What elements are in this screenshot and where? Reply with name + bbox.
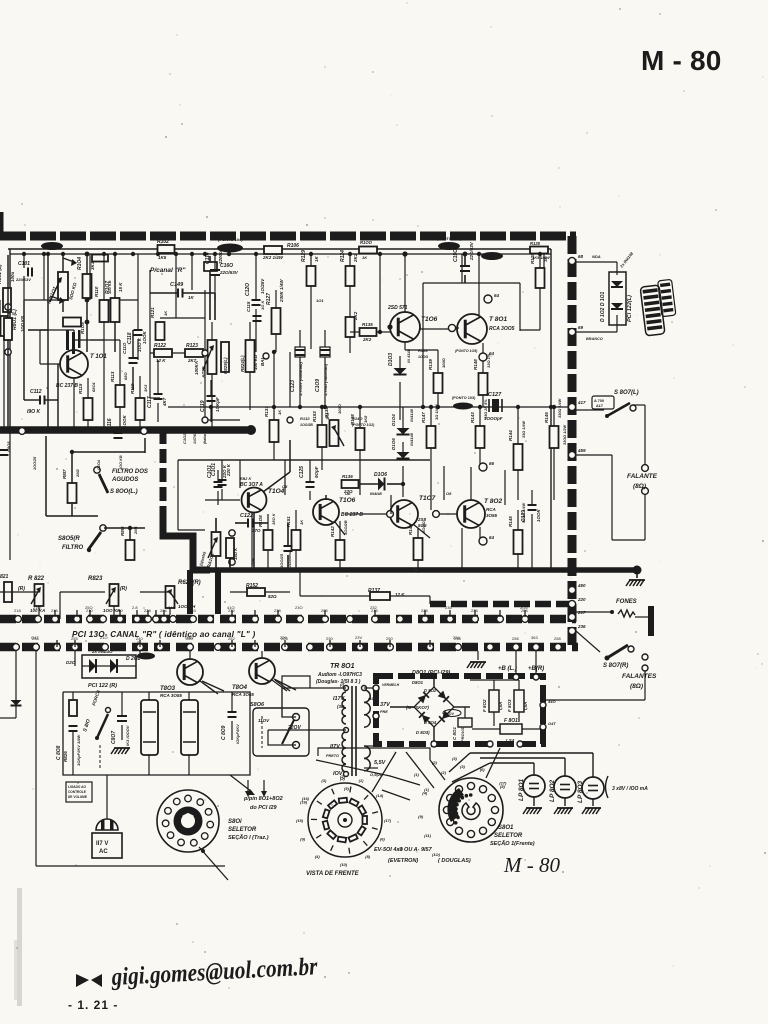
transistor T803 [160,651,215,698]
svg-text:(3Ω: (3Ω [337,704,345,709]
svg-text:P/canal "R": P/canal "R" [150,267,186,274]
wire right supply bus vertical [568,236,577,650]
svg-text:1OO/25: 1OO/25 [279,553,284,568]
svg-text:R110: R110 [94,286,99,297]
svg-text:1K: 1K [314,255,319,262]
wire bottom extra [136,190,330,694]
svg-text:IN4148: IN4148 [409,408,414,422]
resistor R100 [359,240,377,260]
switch PORCA S810 [82,689,110,770]
svg-text:1K: 1K [188,295,195,300]
svg-text:2S8: 2S8 [417,517,427,522]
svg-text:D 1O2 D 1O1: D 1O2 D 1O1 [600,291,606,322]
capacitor C117 [147,360,167,422]
svg-text:(9): (9) [300,837,306,842]
svg-text:2x IN4I4O: 2x IN4I4O [91,649,113,654]
resistor R817 [62,468,80,503]
svg-text:229: 229 [280,635,287,640]
svg-text:CONTROLE: CONTROLE [68,790,86,794]
capacitor C104 [279,523,293,570]
svg-text:R1O4: R1O4 [77,257,83,270]
svg-text:T 1O1: T 1O1 [90,354,107,360]
wire rotary mesh [316,748,564,800]
svg-text:R127: R127 [266,293,272,305]
svg-text:256: 256 [512,636,519,641]
svg-text:R143: R143 [470,412,475,423]
svg-text:(R): (R) [18,586,25,592]
capacitor C160 [204,256,239,320]
capacitor C150 [453,241,474,283]
svg-text:236: 236 [577,624,586,629]
svg-text:(2): (2) [432,760,438,765]
svg-text:R1O7: R1O7 [105,281,111,294]
svg-text:C12O: C12O [245,283,251,296]
svg-text:(PONTO 1O5): (PONTO 1O5) [455,349,478,353]
rotary vista pin labels [296,774,392,867]
junction dots rail404 [209,405,553,409]
label 2M4 [250,557,255,567]
diode D103 [388,348,411,420]
wire filtro loop [46,436,145,570]
svg-text:41O: 41O [227,605,235,610]
wire right mesh [576,455,645,540]
svg-text:(8): (8) [500,784,506,789]
svg-text:68O: 68O [123,372,128,380]
resistor R150 [258,512,276,570]
svg-text:BC 237 B: BC 237 B [56,383,78,389]
label FALANTES [545,654,657,718]
scan streak left margin [14,888,22,1006]
transistor T107 [390,466,436,528]
transistor T105 [313,495,363,535]
svg-text:O5: O5 [282,484,288,489]
capacitor C112 [24,300,58,430]
transformer TR801 sec2 [364,746,387,777]
svg-text:R136: R136 [342,474,353,479]
label EV-801 [374,847,471,864]
svg-text:FILTRO: FILTRO [62,545,84,551]
svg-text:(2): (2) [340,774,346,779]
headphone jack [576,604,654,636]
wire t802 links [433,511,495,545]
wire bus staircase [163,514,210,570]
svg-text:R137: R137 [368,588,380,594]
label scatter2 [33,455,123,470]
svg-text:C8O7: C8O7 [111,731,117,744]
diode-box PCI 122(R) [66,649,155,689]
svg-text:(EVETRON): (EVETRON) [388,858,418,864]
resistor R107b [105,254,123,352]
wire main +V bus top [0,232,576,241]
wire filter box [63,692,250,775]
svg-text:100Ω: 100Ω [441,357,446,368]
label FONES [616,599,637,605]
resistor R128 [520,253,548,330]
wire falanteL [407,405,648,645]
svg-text:F 8O1: F 8O1 [504,718,518,724]
resistor R113 [110,340,128,430]
resistor R801box [4,255,12,430]
svg-text:21O: 21O [33,605,41,610]
resistor R127 [266,279,284,352]
svg-text:AC: AC [99,849,108,855]
svg-text:(PONTO 1O2): (PONTO 1O2) [352,423,375,427]
resistor R124 [340,250,358,317]
svg-text:I,5A: I,5A [498,702,503,710]
svg-text:5OOΩ: 5OOΩ [421,521,426,533]
svg-text:T 8O2: T 8O2 [484,498,502,505]
wire top-left mesh [40,254,138,364]
plug 117V AC [92,775,122,858]
fuse F801 [472,718,543,743]
svg-text:(R): (R) [120,586,127,592]
svg-text:22O/53V: 22O/53V [469,241,474,261]
svg-text:R823: R823 [88,576,103,582]
svg-text:(11): (11) [424,833,431,838]
wire t107 base [345,511,430,538]
svg-text:2SD 571: 2SD 571 [387,305,408,311]
resistor R148 [473,353,491,407]
svg-text:C149: C149 [170,282,184,288]
label 3x8V [606,776,649,798]
capacitor C120 [245,254,265,352]
svg-text:(14): (14) [376,793,384,798]
label P-canal-R [150,267,186,274]
svg-text:VISTA DE FRENTE: VISTA DE FRENTE [306,871,360,877]
wire bottom rail 692 [150,691,250,693]
svg-text:R139: R139 [428,359,433,370]
svg-text:100 KB: 100 KB [253,354,258,370]
label S801 frente [490,825,535,847]
wire t106 collector [402,251,407,312]
svg-text:(PONTO 103): (PONTO 103) [452,396,476,400]
mark page-left edge [0,212,4,232]
switch S806 [250,702,309,756]
pot R822 [18,570,45,615]
resistor R151 [286,510,304,570]
resistor R122 [154,343,172,363]
svg-text:C16O: C16O [220,263,233,269]
svg-text:R113: R113 [110,371,115,382]
transformer TR801 label [316,663,362,685]
capacitor C127 [452,392,503,421]
label +B(R) [528,651,544,680]
svg-text:Audiom -I.O97HC3: Audiom -I.O97HC3 [317,672,362,678]
wire bus619 drops [55,619,475,651]
svg-text:(8): (8) [365,854,371,859]
label cluster a [182,427,207,444]
svg-text:R144: R144 [508,430,513,441]
svg-text:C1O9: C1O9 [315,379,321,392]
svg-text:R142: R142 [330,526,335,537]
svg-text:(4): (4) [398,846,404,851]
node bus-right 68 [568,254,583,265]
svg-text:SEÇÃO I (Traz.): SEÇÃO I (Traz.) [228,834,269,841]
svg-text:1OO KB: 1OO KB [20,316,25,332]
svg-text:T8O3: T8O3 [160,686,176,692]
wire left bus [0,425,256,435]
label D801 PCI-129 [412,670,450,676]
svg-text:(8Ω): (8Ω) [630,683,643,690]
scan speckles drawing area [18,240,592,877]
svg-text:(10): (10) [340,862,348,867]
svg-text:C 8O1: C 8O1 [452,726,457,740]
svg-text:R115: R115 [78,383,83,394]
svg-text:LIGADO AO: LIGADO AO [68,785,86,789]
svg-text:R148: R148 [473,359,478,370]
label PONTO 102 [41,242,63,250]
svg-text:1O K: 1O K [260,300,265,310]
svg-text:R121: R121 [150,307,155,318]
svg-text:II7V: II7V [330,744,341,750]
svg-text:R8I7: R8I7 [62,469,67,479]
svg-text:M - 80: M - 80 [503,853,560,877]
resistor R818 [120,525,138,570]
svg-text:459: 459 [577,448,586,453]
svg-text:S8Oi: S8Oi [228,819,242,825]
node bus-right 417 [568,400,586,411]
svg-text:230K 1/4W: 230K 1/4W [279,279,284,303]
svg-text:15O K: 15O K [233,547,238,560]
svg-text:1O/25V: 1O/25V [260,278,265,294]
svg-text:F 8O3: F 8O3 [507,699,512,712]
svg-text:236: 236 [445,605,452,610]
svg-text:PCI 122 (R): PCI 122 (R) [88,683,117,689]
capacitor C118 [127,300,147,360]
svg-text:C122: C122 [240,513,253,519]
svg-text:PROVID: PROVID [460,727,465,742]
svg-text:IK3 IOOOV: IK3 IOOOV [125,725,130,746]
resistor R102 [157,239,175,260]
svg-text:M - 80: M - 80 [641,45,722,76]
transistor T104 [240,440,290,572]
svg-text:S 8OO(L.): S 8OO(L.) [110,489,138,495]
connector strip hatched [640,279,676,336]
svg-text:( DOUGLAS): ( DOUGLAS) [438,858,471,864]
arrow marks [76,974,102,987]
svg-text:1OO/25: 1OO/25 [33,456,37,470]
svg-text:22O/53V: 22O/53V [219,270,239,275]
wire bus vertical x163 [160,430,167,518]
svg-text:BRANCO: BRANCO [586,337,603,341]
svg-text:R152: R152 [246,583,258,589]
svg-text:D8O1: D8O1 [412,680,424,685]
power board PCI-129 box [376,676,543,744]
wire lamps feed [448,753,593,782]
svg-text:66: 66 [489,461,495,466]
node pci129 edges [373,685,556,747]
svg-text:64: 64 [489,535,495,540]
svg-text:D1O6: D1O6 [374,472,387,478]
label cluster c [240,477,452,496]
svg-text:(17): (17) [384,818,392,823]
svg-text:(15): (15) [296,818,304,823]
capacitor C121 [205,460,231,500]
svg-text:2O5: 2O5 [520,605,528,610]
svg-text:1OKpF: 1OKpF [215,397,220,412]
svg-text:S 8O7(L): S 8O7(L) [614,390,639,396]
svg-text:100Ω: 100Ω [337,403,342,414]
svg-text:9OpF: 9OpF [314,466,319,478]
svg-text:D 8O4: D 8O4 [424,720,437,725]
svg-text:RCA 3O55: RCA 3O55 [160,693,182,698]
svg-text:I9O K: I9O K [27,409,40,415]
svg-text:R123: R123 [186,343,198,349]
svg-text:PRE: PRE [380,710,388,714]
wire t803 t804 rail [150,684,296,700]
svg-text:1K8: 1K8 [363,415,368,423]
svg-text:25O: 25O [85,605,93,610]
node bus430 [19,428,148,435]
svg-text:1OO/2B: 1OO/2B [343,520,348,535]
svg-text:68: 68 [578,254,584,259]
wire rotary crisscross [338,748,500,792]
lamp LP801 [518,763,545,814]
pot R824R [166,570,201,615]
svg-text:(16): (16) [300,799,308,804]
wire filter bottom [36,651,255,866]
resistor R144 [508,407,526,500]
capacitor C149 [150,282,215,320]
label p-pin [243,780,283,811]
svg-text:33Ω 1/4W: 33Ω 1/4W [522,420,526,438]
capacitor C801 [443,710,472,743]
resistor R143 [470,399,488,467]
svg-text:(6): (6) [380,837,386,842]
svg-text:R 822: R 822 [28,576,45,582]
svg-text:A 700: A 700 [594,399,604,403]
label FALANTE [627,473,658,490]
svg-text:2.8: 2.8 [132,605,138,610]
wire left edge parts [0,300,11,455]
svg-text:p/pin 8O1+8O2: p/pin 8O1+8O2 [243,796,283,802]
svg-text:NDA: NDA [592,254,601,259]
resistor R125 [530,241,551,260]
svg-text:R825(L): R825(L) [223,357,228,374]
svg-text:PRETO: PRETO [326,754,339,758]
pot R823 [60,570,127,615]
svg-text:R102: R102 [157,239,169,245]
svg-text:LP 8O1: LP 8O1 [518,778,525,801]
svg-text:3K3: 3K3 [143,384,148,392]
svg-text:24O: 24O [168,605,176,610]
svg-text:R156: R156 [418,348,428,353]
svg-text:D1O3: D1O3 [388,353,394,366]
wire t801 emitter [479,343,495,373]
svg-text:R147: R147 [421,412,426,423]
label PONTO 101 [437,237,462,250]
svg-text:O8: O8 [446,491,452,496]
svg-text:68O1: 68O1 [91,381,96,392]
svg-text:T 8O1: T 8O1 [489,316,507,323]
svg-text:(PONTO 104): (PONTO 104) [218,237,243,242]
svg-text:R1O5: R1O5 [80,322,85,334]
capacitor C809 [221,692,240,744]
pot R134 [324,403,344,446]
svg-text:R146: R146 [544,412,549,423]
resistor R136 [342,474,359,494]
svg-text:C129: C129 [521,510,527,522]
svg-text:33OΩ 1/2W: 33OΩ 1/2W [563,425,567,445]
svg-text:23O: 23O [295,605,303,610]
wire t803 diag [202,679,296,691]
diode D104 [391,407,414,435]
label S801 traz [228,819,269,841]
svg-text:I,5A: I,5A [523,702,528,710]
svg-text:21O: 21O [100,635,108,640]
svg-text:330Ω 1/4W: 330Ω 1/4W [558,398,562,418]
svg-text:C15O: C15O [453,249,459,262]
svg-text:IOKpF/IKV: IOKpF/IKV [235,724,240,744]
capacitor C125 [299,460,319,500]
svg-text:D1O6: D1O6 [391,438,396,450]
svg-text:(3): (3) [452,756,458,761]
label PCI 130 [72,630,255,639]
node bus-right 69 [568,325,583,336]
node bus-right 450 [568,583,586,594]
svg-text:22OV: 22OV [445,712,455,716]
resistor R801(L) [0,264,15,312]
transistor T106 [387,305,438,342]
svg-text:(PONTO 1O1): (PONTO 1O1) [437,237,462,241]
svg-text:FILTRO DOS: FILTRO DOS [112,469,148,475]
node bus-right 236 [568,624,586,635]
ground pci129 [467,651,486,668]
resistor R106 [262,243,299,260]
svg-text:33Ω 2K 5%: 33Ω 2K 5% [484,399,488,419]
svg-text:FONES: FONES [616,599,637,605]
wire bus drop x218 [215,570,221,614]
pot RA102 [198,518,235,570]
label tiny row 647 [31,635,538,640]
svg-text:1OO K: 1OO K [137,337,142,352]
capacitor C807 [111,692,130,754]
wire mid mesh1 [178,404,430,500]
svg-text:R141: R141 [408,524,413,535]
svg-text:R129: R129 [301,250,307,262]
svg-text:F 8O2: F 8O2 [482,699,487,712]
svg-text:C8O5: C8O5 [6,441,11,452]
svg-text:(4): (4) [422,791,428,796]
svg-text:SELETOR: SELETOR [228,827,257,833]
svg-text:T1O4: T1O4 [268,488,285,495]
capacitor C805 big [141,692,158,775]
svg-text:FALANTES: FALANTES [622,673,657,680]
svg-text:R14O: R14O [352,416,363,421]
svg-text:R153: R153 [312,411,317,422]
label +B(L) [498,651,519,680]
resistor R137 [300,570,430,604]
resistor R115 [78,378,96,430]
svg-text:100KA: 100KA [194,361,199,375]
wire collector col [496,283,498,293]
wire top rail y254 [10,253,551,255]
svg-text:4K7: 4K7 [162,397,167,407]
svg-text:D8O1 (PCI-I29): D8O1 (PCI-I29) [412,670,450,676]
wire pcb border left [9,249,11,428]
svg-text:100u: 100u [10,271,15,282]
wire pci129 inner [454,465,519,718]
svg-text:T8O4: T8O4 [232,685,248,691]
svg-text:LP 8O2: LP 8O2 [549,779,556,802]
svg-text:BC 3O7 A: BC 3O7 A [240,482,263,488]
resistor R145 [508,503,526,573]
capacitor C114 [205,248,223,300]
transformer TR801 primary2 [268,722,350,791]
svg-text:1K5 1/4W: 1K5 1/4W [532,255,551,260]
svg-text:C1O2: C1O2 [182,433,187,444]
resistor R138 [350,407,368,470]
